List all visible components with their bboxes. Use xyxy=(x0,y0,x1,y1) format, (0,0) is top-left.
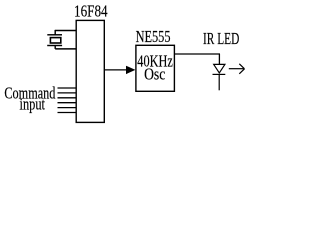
svg-text:input: input xyxy=(20,95,46,114)
svg-text:NE555: NE555 xyxy=(136,27,171,46)
svg-text:16F84: 16F84 xyxy=(74,2,108,21)
svg-text:Osc: Osc xyxy=(144,64,166,83)
svg-text:IR LED: IR LED xyxy=(203,29,239,48)
